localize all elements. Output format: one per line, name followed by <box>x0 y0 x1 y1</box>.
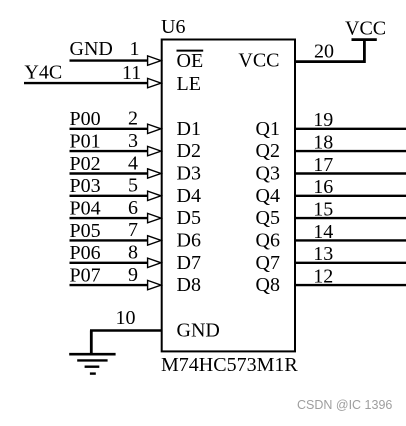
svg-text:D1: D1 <box>177 118 201 140</box>
svg-text:D8: D8 <box>177 274 201 296</box>
svg-text:Q4: Q4 <box>256 185 280 207</box>
pin 5 input arrow <box>148 191 161 200</box>
svg-text:OE: OE <box>177 50 204 72</box>
svg-text:P07: P07 <box>70 264 101 286</box>
svg-text:10: 10 <box>116 307 136 329</box>
svg-text:6: 6 <box>128 197 138 219</box>
svg-text:GND: GND <box>177 320 220 342</box>
svg-text:Q6: Q6 <box>256 229 280 251</box>
wire P02 to pin 4 <box>70 172 148 174</box>
svg-text:2: 2 <box>128 108 138 130</box>
svg-text:VCC: VCC <box>238 50 279 72</box>
svg-text:VCC: VCC <box>345 18 386 40</box>
svg-text:Y4C: Y4C <box>24 61 62 83</box>
wire P00 to pin 2 <box>70 128 148 130</box>
svg-text:Q2: Q2 <box>256 140 280 162</box>
wire P04 to pin 6 <box>70 217 148 219</box>
svg-text:12: 12 <box>313 265 333 287</box>
wire P06 to pin 8 <box>70 262 148 264</box>
pin 3 input arrow <box>148 146 161 155</box>
svg-text:P01: P01 <box>70 130 101 152</box>
wire P05 to pin 7 <box>70 239 148 241</box>
svg-text:19: 19 <box>313 109 333 131</box>
VCC power symbol bar <box>352 38 377 41</box>
svg-text:Q1: Q1 <box>256 118 280 140</box>
svg-text:Q3: Q3 <box>256 163 280 185</box>
svg-text:9: 9 <box>128 264 138 286</box>
IC U6 body <box>162 40 295 352</box>
wire P07 to pin 9 <box>70 284 148 286</box>
wire Y4C to pin 11 <box>24 82 148 84</box>
svg-text:16: 16 <box>313 176 333 198</box>
svg-text:CSDN @IC 1396: CSDN @IC 1396 <box>297 398 392 412</box>
pin 2 input arrow <box>148 124 161 133</box>
svg-text:18: 18 <box>313 131 333 153</box>
svg-text:P04: P04 <box>70 197 101 219</box>
ground symbol <box>69 331 115 374</box>
svg-text:GND: GND <box>70 38 113 60</box>
pin OE label with overline <box>177 50 204 72</box>
wire Q4 output (pin 16) <box>295 195 406 197</box>
svg-text:1: 1 <box>130 38 140 60</box>
svg-text:U6: U6 <box>161 16 185 38</box>
pin 9 input arrow <box>148 280 161 289</box>
svg-text:P03: P03 <box>70 175 101 197</box>
wire Q1 output (pin 19) <box>295 128 406 130</box>
svg-text:D6: D6 <box>177 229 201 251</box>
wire GND to pin 1 <box>70 59 148 61</box>
svg-text:15: 15 <box>313 198 333 220</box>
svg-text:14: 14 <box>313 221 333 243</box>
svg-text:17: 17 <box>313 154 333 176</box>
svg-text:M74HC573M1R: M74HC573M1R <box>161 354 298 376</box>
svg-text:D3: D3 <box>177 163 201 185</box>
svg-text:11: 11 <box>122 62 141 84</box>
wire Q7 output (pin 13) <box>295 262 406 264</box>
wire pin 20 to VCC <box>295 40 364 62</box>
wire ground to pin 10 <box>90 329 162 331</box>
svg-text:8: 8 <box>128 242 138 264</box>
pin 4 input arrow <box>148 169 161 178</box>
svg-text:Q5: Q5 <box>256 207 280 229</box>
pin 1 input arrow <box>148 56 161 65</box>
pin 7 input arrow <box>148 236 161 245</box>
wire P03 to pin 5 <box>70 195 148 197</box>
wire Q6 output (pin 14) <box>295 239 406 241</box>
pin 6 input arrow <box>148 213 161 222</box>
svg-text:LE: LE <box>177 73 201 95</box>
svg-text:3: 3 <box>128 130 138 152</box>
svg-text:P02: P02 <box>70 153 101 175</box>
svg-text:Q8: Q8 <box>256 274 280 296</box>
svg-text:5: 5 <box>128 175 138 197</box>
svg-text:13: 13 <box>313 243 333 265</box>
wire P01 to pin 3 <box>70 150 148 152</box>
svg-text:Q7: Q7 <box>256 252 280 274</box>
pin 11 input arrow <box>148 78 161 87</box>
svg-text:P06: P06 <box>70 242 101 264</box>
svg-text:D4: D4 <box>177 185 201 207</box>
svg-text:P05: P05 <box>70 220 101 242</box>
svg-text:P00: P00 <box>70 108 101 130</box>
wire Q2 output (pin 18) <box>295 150 406 152</box>
svg-text:4: 4 <box>128 152 138 174</box>
svg-text:D2: D2 <box>177 140 201 162</box>
wire Q8 output (pin 12) <box>295 284 406 286</box>
svg-text:D5: D5 <box>177 207 201 229</box>
svg-text:7: 7 <box>128 219 138 241</box>
svg-text:D7: D7 <box>177 252 201 274</box>
svg-text:20: 20 <box>314 41 334 63</box>
wire Q5 output (pin 15) <box>295 217 406 219</box>
pin 8 input arrow <box>148 258 161 267</box>
wire Q3 output (pin 17) <box>295 172 406 174</box>
